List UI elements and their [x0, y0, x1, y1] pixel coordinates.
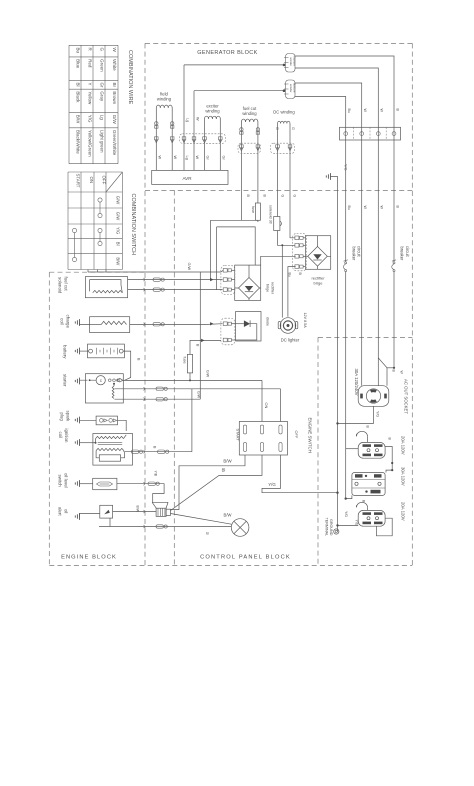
svg-text:W: W: [380, 206, 384, 210]
svg-text:Gray: Gray: [99, 91, 104, 102]
svg-text:G: G: [291, 127, 295, 130]
oil level switch: [93, 478, 117, 489]
field winding: [156, 105, 172, 108]
rectifier bridge 2 enclosure: [305, 236, 330, 270]
svg-text:COMBINATION WIRE: COMBINATION WIRE: [127, 50, 133, 105]
svg-text:CONTROL PANEL BLOCK: CONTROL PANEL BLOCK: [200, 555, 291, 561]
svg-text:Blue: Blue: [75, 59, 80, 69]
svg-text:B/W: B/W: [75, 115, 80, 124]
engine switch wires up: [261, 380, 263, 421]
starter B wire to ON: [123, 379, 262, 381]
engine switch sub border: [317, 337, 319, 565]
fuel cut winding: [241, 119, 258, 122]
svg-text:W: W: [363, 109, 367, 113]
socket2 wiring: [346, 448, 359, 450]
starter: [85, 374, 123, 403]
combination switch table: [67, 172, 69, 270]
svg-text:G: G: [293, 195, 297, 198]
ground generator Y/G: [326, 173, 330, 180]
wire G/W table to rectifier: [88, 271, 221, 273]
diode box: [236, 312, 261, 342]
svg-text:OFF: OFF: [102, 176, 107, 185]
svg-text:G/W: G/W: [206, 370, 210, 378]
svg-text:brige: brige: [266, 284, 270, 292]
ignition coil: [93, 434, 133, 466]
svg-text:starter: starter: [63, 374, 68, 387]
svg-text:12V 8.5A: 12V 8.5A: [303, 313, 307, 329]
path B inner: [217, 227, 256, 265]
charge coil: [90, 317, 130, 333]
svg-text:20A 120V: 20A 120V: [401, 436, 406, 455]
svg-text:Y/G: Y/G: [344, 511, 348, 517]
filter output wires to breakers: [295, 56, 394, 262]
svg-text:coil: coil: [58, 432, 63, 439]
svg-text:Gr: Gr: [221, 156, 225, 161]
svg-text:Bl: Bl: [222, 467, 226, 472]
svg-text:charge: charge: [66, 315, 71, 329]
bridge2 wire pin3 from bridge1: [261, 256, 296, 265]
filter input wires: [184, 64, 284, 66]
battery fuse: [187, 354, 192, 373]
switch contact circles: [98, 198, 102, 202]
svg-text:Y/G: Y/G: [354, 520, 358, 526]
fuse (control panel, on B wire): [255, 203, 260, 220]
svg-text:Y/G: Y/G: [344, 164, 348, 171]
wire field right: [171, 108, 173, 170]
svg-text:diode: diode: [266, 317, 270, 326]
control panel block dashed border: [173, 190, 175, 565]
vertical wires: [199, 272, 201, 399]
svg-text:winder: winder: [289, 58, 293, 67]
svg-text:Yellow: Yellow: [87, 91, 92, 105]
starter solenoid wires: [115, 388, 281, 390]
svg-text:B/W: B/W: [223, 458, 232, 463]
svg-text:Bu: Bu: [75, 48, 80, 54]
diode pins: [223, 322, 231, 326]
svg-text:Gr: Gr: [206, 156, 210, 161]
svg-text:30A 120/240V: 30A 120/240V: [354, 369, 359, 396]
svg-text:winding: winding: [157, 97, 172, 102]
svg-text:fuse: fuse: [251, 206, 255, 213]
svg-text:Bl: Bl: [75, 83, 80, 87]
svg-text:B/W: B/W: [224, 513, 232, 518]
engine switch Y/G down: [262, 455, 338, 493]
svg-text:plug: plug: [60, 413, 65, 422]
svg-text:W: W: [173, 156, 177, 160]
DC winding: [278, 121, 291, 123]
charge coil wire out: [130, 323, 223, 326]
battery: [88, 344, 125, 358]
svg-text:Black/White: Black/White: [75, 130, 80, 154]
socket4 wiring: [357, 502, 368, 507]
connector block: [156, 508, 170, 516]
svg-text:Y/G: Y/G: [268, 482, 276, 487]
svg-text:W: W: [196, 117, 200, 121]
svg-text:G/W: G/W: [197, 391, 201, 399]
AVR connector row (dashed): [180, 134, 226, 144]
oil level switch wire out: [117, 484, 164, 503]
svg-text:G/W: G/W: [116, 196, 121, 204]
svg-text:winding: winding: [242, 111, 257, 116]
svg-text:rectifier: rectifier: [270, 282, 274, 295]
engine switch box: [239, 422, 287, 456]
svg-text:B: B: [206, 532, 209, 536]
svg-text:Yellow/Green: Yellow/Green: [87, 130, 92, 157]
svg-text:spark: spark: [66, 411, 71, 423]
connector funnel: [152, 502, 168, 508]
bridge2 pins: [295, 236, 303, 240]
socket4 duplex 20A: [358, 510, 385, 526]
bottom dashed border: [49, 565, 412, 567]
svg-text:Y/G: Y/G: [87, 115, 92, 123]
engine switch B/W down-left: [171, 455, 246, 510]
svg-text:G: G: [275, 127, 279, 130]
svg-text:W: W: [157, 156, 161, 160]
svg-text:White: White: [112, 59, 117, 71]
svg-text:ENGINE BLOCK: ENGINE BLOCK: [61, 555, 117, 561]
svg-text:20A 120V: 20A 120V: [401, 502, 406, 521]
svg-text:GENERATOR BLOCK: GENERATOR BLOCK: [197, 50, 258, 56]
svg-text:30A 120V: 30A 120V: [401, 467, 406, 486]
svg-text:Y/B: Y/B: [154, 471, 158, 477]
svg-text:Bl: Bl: [116, 242, 121, 246]
svg-text:alert: alert: [58, 507, 63, 516]
noise filter 2: [284, 80, 295, 99]
DC lighter: [278, 318, 298, 334]
svg-text:Green: Green: [99, 59, 104, 72]
bridge2 pin2/pin4 wires down to DC lighter: [281, 245, 283, 317]
svg-text:OFF: OFF: [294, 431, 299, 439]
svg-text:coil: coil: [60, 318, 65, 325]
svg-text:ON: ON: [89, 177, 94, 184]
battery wire out: [123, 351, 131, 380]
svg-text:START: START: [236, 429, 241, 442]
Bl wire to connector: [171, 455, 263, 511]
path A : fuse to rectifier: [211, 220, 258, 279]
circuit breaker W4: [392, 260, 396, 272]
oil alert unit: [100, 505, 113, 518]
svg-text:G/W: G/W: [112, 115, 117, 125]
svg-text:G/W: G/W: [187, 263, 191, 271]
svg-text:Y/G: Y/G: [116, 227, 121, 234]
svg-text:breaker: breaker: [351, 247, 356, 262]
svg-text:battery: battery: [63, 345, 68, 359]
svg-text:W: W: [195, 156, 199, 160]
svg-text:Lg: Lg: [99, 115, 104, 121]
svg-text:W: W: [363, 206, 367, 210]
engine block dashed border: [48, 272, 50, 565]
svg-text:Black: Black: [75, 91, 80, 103]
svg-text:Br: Br: [112, 83, 117, 88]
DC protector (solenoid 30): [274, 217, 282, 231]
exciter winding: [205, 116, 221, 119]
svg-text:solenoid 30: solenoid 30: [268, 205, 272, 224]
svg-text:B/W: B/W: [136, 506, 140, 513]
ground terminal: [334, 529, 339, 534]
svg-text:G: G: [99, 48, 104, 52]
svg-text:Lg: Lg: [185, 156, 189, 160]
svg-text:switch: switch: [58, 475, 63, 488]
svg-text:DC lighter: DC lighter: [281, 338, 300, 343]
svg-text:B/W: B/W: [116, 257, 121, 265]
noise filter 1: [284, 54, 295, 73]
fuel cut solenoid: [85, 277, 127, 298]
svg-text:ON: ON: [264, 403, 269, 409]
svg-text:AC OUT SOCKET: AC OUT SOCKET: [403, 379, 408, 414]
socket3 30A 120V: [352, 473, 385, 496]
svg-text:Brown: Brown: [112, 91, 117, 104]
svg-text:Bu: Bu: [347, 109, 351, 113]
generator block dashed border: [145, 42, 412, 44]
connector strip 4 pole: [340, 127, 401, 140]
fuel cut solenoid wires out: [128, 279, 223, 281]
svg-text:winding: winding: [205, 109, 220, 114]
svg-text:Gr: Gr: [99, 83, 104, 89]
bridge1 pins: [223, 269, 231, 273]
svg-text:START: START: [76, 174, 81, 188]
svg-text:COMBINATION SWITCH: COMBINATION SWITCH: [130, 194, 136, 256]
svg-text:ENGINE SWITCH: ENGINE SWITCH: [308, 418, 313, 453]
rectifier bridge 1 enclosure: [235, 265, 261, 300]
svg-text:breaker: breaker: [400, 247, 405, 262]
svg-text:W: W: [380, 109, 384, 113]
svg-text:Lg: Lg: [186, 118, 190, 122]
svg-text:W: W: [112, 48, 117, 53]
svg-text:Green/White: Green/White: [112, 130, 117, 156]
svg-text:winder: winder: [289, 84, 293, 93]
svg-text:oil: oil: [64, 509, 69, 513]
pilot lamp: [231, 519, 249, 537]
svg-text:DC winding: DC winding: [273, 110, 295, 115]
ignition wire out Bl: [133, 451, 192, 453]
spark plug: [96, 416, 117, 425]
svg-text:brige: brige: [314, 281, 324, 286]
wires from noise filters to AVR: [183, 65, 185, 170]
svg-text:GROUND: GROUND: [329, 519, 333, 536]
svg-text:Bu: Bu: [288, 273, 292, 277]
svg-text:ignition: ignition: [64, 429, 69, 443]
svg-text:solenoid: solenoid: [58, 277, 63, 294]
svg-text:Light green: Light green: [99, 130, 104, 153]
diode: [244, 320, 250, 327]
svg-text:fuel cut: fuel cut: [64, 277, 69, 292]
B/W diagonal to pilot lamp: [171, 514, 232, 525]
svg-text:TERMINAL: TERMINAL: [324, 518, 328, 537]
socket2 duplex 20A: [358, 442, 385, 458]
svg-text:Bu: Bu: [347, 206, 351, 210]
rectifier bridge 2 diamond: [308, 247, 328, 267]
svg-text:G: G: [281, 195, 285, 198]
svg-text:AVR: AVR: [182, 176, 192, 181]
socket1 connections: [378, 358, 387, 386]
AVR box: [152, 170, 228, 184]
socket3 wiring: [346, 495, 352, 498]
svg-text:oil level: oil level: [64, 473, 69, 488]
circuit breaker W1: [343, 260, 347, 272]
socket1 30A 120/240V twistlock: [358, 386, 389, 407]
W1 down: [345, 272, 347, 499]
svg-text:G/W: G/W: [116, 212, 121, 220]
svg-text:Y/G: Y/G: [375, 411, 379, 417]
table output stubs: [87, 270, 89, 273]
svg-text:Red: Red: [87, 59, 92, 68]
combination wire table: [68, 45, 70, 163]
wire row1 from table already drawn ; connect to pin: [221, 270, 223, 272]
oil alert wire out: [113, 511, 157, 513]
lamp bottom wire: [99, 526, 231, 528]
rectifier bridge 1 diamond: [239, 278, 260, 299]
svg-text:fuse: fuse: [182, 357, 186, 364]
wire field left: [155, 108, 157, 170]
socket1 ground Y/G: [338, 406, 374, 423]
svg-text:Y: Y: [87, 83, 92, 86]
